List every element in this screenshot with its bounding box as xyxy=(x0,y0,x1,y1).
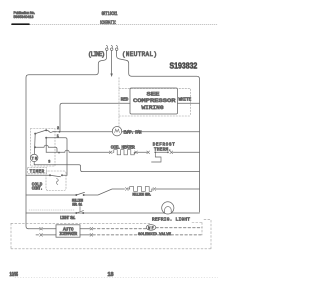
svg-text:CONT.: CONT. xyxy=(32,188,43,192)
svg-text:10/95: 10/95 xyxy=(10,272,19,278)
header rule bold segment xyxy=(12,23,29,25)
power cord prong loop middle xyxy=(110,45,113,50)
svg-text:REFRIG. LIGHT: REFRIG. LIGHT xyxy=(152,217,190,223)
wire ground from plug middle prong xyxy=(111,50,113,73)
wire X to icemaker box row1 xyxy=(42,228,56,230)
wire icemaker box to X row2 right xyxy=(80,234,90,236)
icemaker connector X row2 left xyxy=(40,234,43,237)
dashed enclosure icemaker borders xyxy=(11,220,211,249)
cold control right terminal wire xyxy=(62,174,67,176)
header rule dotted xyxy=(12,23,218,25)
icemaker row 1 left dashes xyxy=(29,228,40,230)
svg-text:5995340413: 5995340413 xyxy=(14,15,34,19)
coil heater connector X right xyxy=(135,151,138,154)
icemaker connector X row2 right xyxy=(90,234,93,237)
light switch dot right xyxy=(82,212,84,214)
mullion heater switch row from left rail xyxy=(26,194,76,196)
wire heater to defrost thermostat xyxy=(137,151,147,153)
timer label dashed outline xyxy=(28,167,47,173)
mullion heater resistor xyxy=(128,187,153,192)
svg-text:GRT18CN1: GRT18CN1 xyxy=(102,11,118,17)
icemaker connector X row1 left xyxy=(40,227,43,230)
evap fan motor circle xyxy=(112,127,121,136)
coil heater resistor xyxy=(113,150,136,155)
cold control feed from left rail xyxy=(26,174,50,176)
svg-text:1: 1 xyxy=(57,135,59,139)
mullion heater connector X right xyxy=(153,188,156,191)
svg-text:LIGHT SW.: LIGHT SW. xyxy=(60,217,76,221)
timer terminal 2 dot A xyxy=(45,129,47,131)
water valve solenoid oval xyxy=(146,225,156,231)
footer dotted rule xyxy=(15,277,218,279)
svg-text:3: 3 xyxy=(48,161,50,165)
wire icemaker box to X row1 right xyxy=(80,228,90,230)
svg-text:AUTO: AUTO xyxy=(63,229,74,233)
evap fan motor glyph xyxy=(115,129,120,132)
wire X to icemaker box row2 xyxy=(42,234,56,236)
light row wire xyxy=(26,212,200,214)
refrigerator light filament xyxy=(165,207,172,214)
light switch dot left xyxy=(75,212,77,214)
svg-text:RED: RED xyxy=(121,98,129,102)
mullion heater connector X left xyxy=(125,188,128,191)
mullion switch dot right xyxy=(83,194,85,196)
svg-text:S193832: S193832 xyxy=(170,61,198,71)
icemaker row 2 left dashes xyxy=(36,234,40,236)
svg-text:TIMER: TIMER xyxy=(30,170,45,174)
svg-text:SCHEMATIC: SCHEMATIC xyxy=(100,20,116,26)
svg-text:HTR. SW.: HTR. SW. xyxy=(72,203,83,207)
ground arrowhead xyxy=(110,74,113,78)
timer motor bottom wire to neutral return xyxy=(34,162,199,172)
dashed compartment border fragment above light row xyxy=(29,209,74,211)
svg-text:DEFROST: DEFROST xyxy=(153,144,175,148)
svg-text:2: 2 xyxy=(57,127,59,131)
auto icemaker box xyxy=(56,225,80,237)
svg-text:WF: WF xyxy=(148,226,153,230)
defrost thermostat connector X left xyxy=(147,151,150,154)
wire neutral side from plug to right rail xyxy=(117,50,200,212)
wire terminal C vertical down to heater row xyxy=(45,138,47,153)
svg-text:COLD: COLD xyxy=(32,183,43,187)
water valve dashes to right xyxy=(156,227,202,229)
svg-text:WHITE: WHITE xyxy=(179,98,192,102)
light switch plunger xyxy=(76,207,83,213)
defrost thermostat terminal right xyxy=(167,151,169,153)
svg-text:ICEMAKER: ICEMAKER xyxy=(59,233,77,237)
mullion row rising jog xyxy=(84,189,125,195)
icemaker connector X row1 right xyxy=(90,227,93,230)
wire terminal D with hop to heater row xyxy=(35,145,57,152)
svg-text:MULLION HTR.: MULLION HTR. xyxy=(133,194,152,198)
coil heater connector X left xyxy=(109,151,112,154)
dashed compartment box around compressor xyxy=(119,78,191,130)
fan row junction dot xyxy=(57,131,60,133)
svg-text:SOLENOID VALVE: SOLENOID VALVE xyxy=(138,233,172,237)
power cord prong loop left xyxy=(106,45,109,50)
wire line side from plug to left rail xyxy=(26,50,107,228)
power cord prong loop right xyxy=(115,45,118,50)
icemaker row1 dashes to water valve xyxy=(93,228,146,230)
wire terminal A to fan row junction xyxy=(46,130,57,132)
timer terminal dot D xyxy=(34,146,36,148)
wire compressor to right rail xyxy=(178,102,200,104)
cold control terminal right xyxy=(61,174,63,176)
svg-text:(NEUTRAL): (NEUTRAL) xyxy=(122,51,157,58)
defrost thermostat bimetal step xyxy=(152,152,162,162)
mullion switch blade xyxy=(76,192,84,195)
defrost thermostat connector X right xyxy=(170,151,173,154)
svg-text:TM: TM xyxy=(32,156,37,160)
timer internal vertical B to D to TM xyxy=(33,134,36,155)
wire thermostat to right rail xyxy=(173,151,200,153)
timer switch blade xyxy=(35,130,45,133)
icemaker row2 dashes to right xyxy=(93,234,202,236)
fan row wire xyxy=(60,131,200,133)
wire thermostat terminals xyxy=(156,151,167,153)
compressor feed vertical from timer xyxy=(60,103,130,132)
heater row wire with hop over cold control vertical xyxy=(46,150,109,152)
svg-text:(LINE): (LINE) xyxy=(88,51,105,58)
cold control terminal left xyxy=(49,174,51,176)
timer digit 4 xyxy=(58,151,60,153)
mullion switch dot left xyxy=(75,194,77,196)
cold control bellows squiggle xyxy=(56,179,58,185)
wire terminal C to cold control vertical xyxy=(46,138,67,175)
timer terminal dot B xyxy=(34,133,36,135)
svg-text:WIRING: WIRING xyxy=(142,104,165,111)
compressor box xyxy=(130,88,178,114)
timer motor TM circle xyxy=(31,154,38,161)
wire mullion heater to right rail xyxy=(156,188,200,190)
refrigerator light bulb circle xyxy=(162,202,174,214)
timer dashed box xyxy=(31,129,56,167)
defrost thermostat terminal left xyxy=(154,151,156,153)
cold control blade xyxy=(50,175,61,177)
cold control dashed box xyxy=(46,171,66,191)
svg-text:EVAP. FAN: EVAP. FAN xyxy=(124,132,142,136)
timer terminal dot C xyxy=(45,137,47,139)
